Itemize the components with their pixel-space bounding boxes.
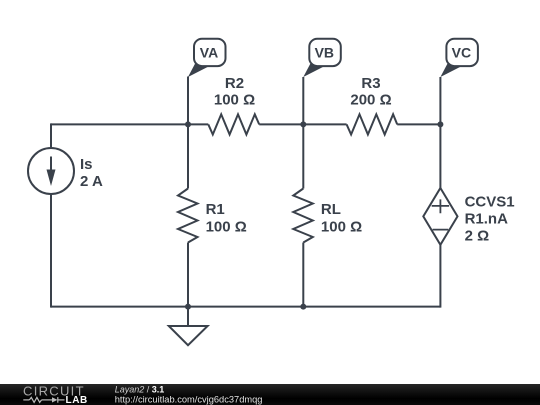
svg-text:R1.nA: R1.nA [465, 210, 509, 227]
svg-text:LAB: LAB [66, 395, 88, 405]
svg-text:100 Ω: 100 Ω [214, 92, 255, 109]
svg-text:VB: VB [315, 45, 334, 61]
svg-text:2 A: 2 A [80, 173, 103, 190]
svg-text:VC: VC [452, 45, 471, 61]
svg-text:http://circuitlab.com/cvjg6dc3: http://circuitlab.com/cvjg6dc37dmqg [115, 395, 263, 405]
svg-text:R1: R1 [206, 201, 225, 218]
svg-text:Is: Is [80, 156, 93, 173]
svg-text:100 Ω: 100 Ω [206, 218, 247, 235]
svg-text:Layan2 / 3.1: Layan2 / 3.1 [115, 385, 165, 395]
svg-text:CCVS1: CCVS1 [465, 193, 515, 210]
svg-text:200 Ω: 200 Ω [350, 92, 391, 109]
svg-text:RL: RL [321, 201, 341, 218]
svg-text:R2: R2 [225, 75, 244, 92]
svg-text:R3: R3 [361, 75, 380, 92]
svg-text:100 Ω: 100 Ω [321, 218, 362, 235]
svg-text:VA: VA [200, 45, 218, 61]
svg-text:2 Ω: 2 Ω [465, 227, 490, 244]
